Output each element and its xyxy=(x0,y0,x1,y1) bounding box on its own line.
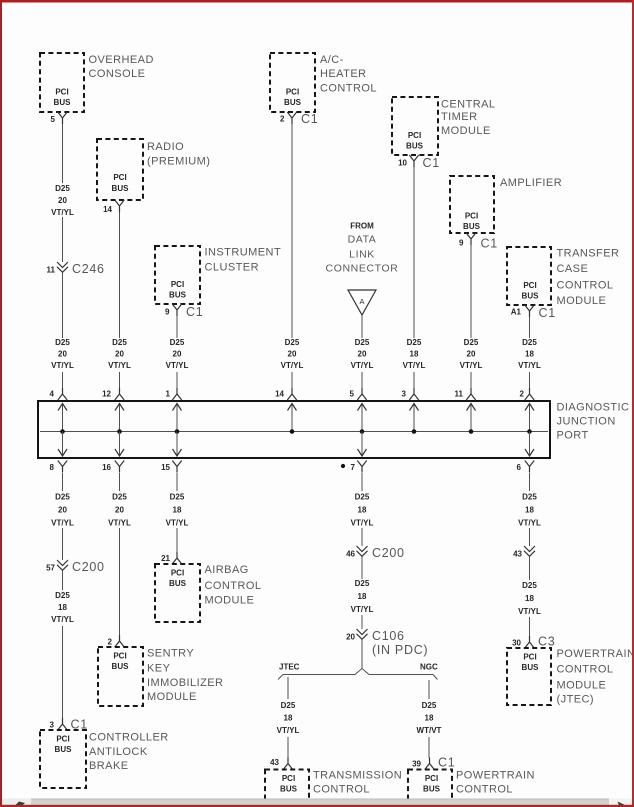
svg-text:18: 18 xyxy=(173,506,182,515)
svg-text:16: 16 xyxy=(102,463,111,472)
wire label D25 20 VT/YL xyxy=(108,338,131,370)
svg-text:TRANSFER: TRANSFER xyxy=(557,248,620,260)
svg-text:39: 39 xyxy=(412,760,421,769)
svg-text:20: 20 xyxy=(58,350,67,359)
wire segment xyxy=(529,372,531,390)
wire: port pin 7 down xyxy=(361,473,363,491)
svg-text:C1: C1 xyxy=(438,756,455,770)
module: TRANSFER CASE CONTROL MODULE (PCI BUS) xyxy=(507,247,619,307)
wire: to transmission control xyxy=(287,737,289,758)
svg-text:VT/YL: VT/YL xyxy=(51,519,74,528)
module: INSTRUMENT CLUSTER (PCI BUS) xyxy=(155,246,281,304)
svg-text:PCI: PCI xyxy=(113,652,126,661)
svg-text:BUS: BUS xyxy=(112,184,130,193)
wire label D25 20 VT/YL xyxy=(51,184,74,217)
svg-text:TRANSMISSION: TRANSMISSION xyxy=(313,770,402,782)
wire: C200 to controller antilock brake xyxy=(62,626,64,719)
svg-text:C200: C200 xyxy=(72,560,105,574)
svg-text:WT/VT: WT/VT xyxy=(417,726,442,735)
module: CENTRAL TIMER MODULE (PCI BUS) xyxy=(392,97,496,155)
port bottom connector pin 16 xyxy=(102,461,124,473)
svg-text:VT/YL: VT/YL xyxy=(51,361,74,370)
svg-text:VT/YL: VT/YL xyxy=(460,361,483,370)
svg-text:C106: C106 xyxy=(372,629,405,643)
pin 3 connector C1 of controller antilock brake xyxy=(50,718,88,732)
svg-text:10: 10 xyxy=(398,158,407,167)
svg-text:PCI: PCI xyxy=(113,173,126,182)
wire: A/C-heater control to junction port xyxy=(291,124,293,338)
wire: to airbag control module xyxy=(176,528,178,553)
port internal wire with down arrow xyxy=(115,432,124,457)
port internal wire with up arrow xyxy=(525,403,534,432)
svg-text:(PREMIUM): (PREMIUM) xyxy=(147,156,210,168)
wire: instrument cluster to junction port xyxy=(176,316,178,338)
port internal wire with up arrow xyxy=(467,403,476,432)
svg-text:18: 18 xyxy=(525,350,534,359)
pin 43 of transmission control xyxy=(270,758,293,770)
svg-text:14: 14 xyxy=(103,205,112,214)
wire label D25 20 VT/YL xyxy=(108,493,131,528)
port bottom connector pin 7 with junction dot marker xyxy=(341,461,367,473)
port connector pin 4 xyxy=(50,388,68,400)
svg-text:AIRBAG: AIRBAG xyxy=(205,564,249,576)
svg-text:CONTROL: CONTROL xyxy=(313,784,370,796)
svg-text:A1: A1 xyxy=(511,307,522,316)
svg-text:20: 20 xyxy=(288,350,297,359)
svg-text:TIMER: TIMER xyxy=(441,111,477,123)
svg-text:CASE: CASE xyxy=(557,263,589,275)
svg-text:SENTRY: SENTRY xyxy=(147,647,194,659)
svg-text:18: 18 xyxy=(410,350,419,359)
svg-text:C3: C3 xyxy=(538,635,555,649)
wire label D25 18 VT/YL xyxy=(51,591,74,624)
svg-text:18: 18 xyxy=(525,506,534,515)
svg-text:PCI: PCI xyxy=(286,88,299,97)
wire label D25 18 WT/VT xyxy=(417,701,442,735)
svg-text:(IN PDC): (IN PDC) xyxy=(372,643,428,657)
module: POWERTRAIN CONTROL MODULE JTEC (PCI BUS) xyxy=(507,648,634,706)
svg-text:VT/YL: VT/YL xyxy=(277,726,300,735)
svg-text:A/C-: A/C- xyxy=(320,54,344,66)
svg-text:CONTROL: CONTROL xyxy=(205,580,262,592)
wire: C106 to harness split xyxy=(361,640,363,670)
wire segment xyxy=(62,571,64,591)
svg-text:20: 20 xyxy=(467,350,476,359)
svg-text:VT/YL: VT/YL xyxy=(108,361,131,370)
pin 2 connector C1 of A/C-heater control xyxy=(280,112,318,126)
pin A1 connector C1 of transfer case control module xyxy=(511,305,556,320)
svg-text:POWERTRAIN: POWERTRAIN xyxy=(456,770,535,782)
svg-text:AMPLIFIER: AMPLIFIER xyxy=(500,177,562,189)
svg-text:C1: C1 xyxy=(539,306,556,320)
label: FROM DATA LINK CONNECTOR xyxy=(326,222,399,275)
svg-text:D25: D25 xyxy=(112,493,127,502)
wire: port pin 6 down xyxy=(529,473,531,491)
svg-text:ANTILOCK: ANTILOCK xyxy=(89,746,148,758)
in-line connector C200 pin 46 xyxy=(346,546,405,560)
wire label D25 20 VT/YL xyxy=(51,338,74,370)
wire label D25 18 VT/YL xyxy=(518,338,541,370)
wire: transfer case control module to junction port xyxy=(529,317,531,338)
pin 39 connector C1 of powertrain control xyxy=(412,756,455,770)
module: POWERTRAIN CONTROL (PCI BUS) xyxy=(408,770,535,804)
svg-text:BUS: BUS xyxy=(463,222,481,231)
junction dot xyxy=(360,429,365,434)
svg-text:IMMOBILIZER: IMMOBILIZER xyxy=(147,677,223,689)
svg-text:4: 4 xyxy=(50,390,55,399)
svg-text:46: 46 xyxy=(346,550,355,559)
svg-text:MODULE: MODULE xyxy=(557,295,607,307)
svg-text:18: 18 xyxy=(358,506,367,515)
wire: to sentry key immobilizer module xyxy=(119,528,121,636)
svg-text:D25: D25 xyxy=(112,338,127,347)
svg-text:9: 9 xyxy=(165,308,170,317)
svg-text:12: 12 xyxy=(102,390,111,399)
svg-text:5: 5 xyxy=(350,390,355,399)
svg-text:D25: D25 xyxy=(355,338,370,347)
svg-text:C200: C200 xyxy=(372,546,405,560)
wire label D25 18 VT/YL xyxy=(277,701,300,735)
svg-text:VT/YL: VT/YL xyxy=(518,519,541,528)
bus line inside junction port xyxy=(40,431,548,433)
module: OVERHEAD CONSOLE (PCI BUS) xyxy=(40,53,154,112)
pin 9 connector C1 of instrument cluster xyxy=(165,304,203,319)
module: A/C-HEATER CONTROL (PCI BUS) xyxy=(270,53,377,112)
svg-text:6: 6 xyxy=(517,463,522,472)
svg-text:18: 18 xyxy=(58,603,67,612)
svg-text:VT/YL: VT/YL xyxy=(403,361,426,370)
svg-text:CONTROLLER: CONTROLLER xyxy=(89,732,169,744)
wire label D25 20 VT/YL xyxy=(351,338,374,370)
svg-text:11: 11 xyxy=(47,266,56,275)
svg-text:VT/YL: VT/YL xyxy=(166,361,189,370)
svg-text:D25: D25 xyxy=(170,493,185,502)
port internal wire with down arrow xyxy=(525,432,534,457)
in-line connector C200 pin 57 xyxy=(46,560,105,574)
svg-text:PCI: PCI xyxy=(425,774,438,783)
port connector pin 11 xyxy=(455,388,476,400)
svg-text:BUS: BUS xyxy=(423,785,441,794)
svg-text:BUS: BUS xyxy=(55,745,73,754)
svg-text:CONTROL: CONTROL xyxy=(456,784,513,796)
svg-text:D25: D25 xyxy=(522,493,537,502)
svg-text:BUS: BUS xyxy=(522,292,540,301)
pin 9 connector C1 of amplifier xyxy=(459,233,498,251)
wire segment xyxy=(470,372,472,390)
port bottom connector pin 8 xyxy=(50,461,68,473)
svg-text:D25: D25 xyxy=(55,591,70,600)
svg-text:VT/YL: VT/YL xyxy=(518,361,541,370)
wire label D25 18 VT/YL xyxy=(351,493,374,528)
svg-text:CONTROL: CONTROL xyxy=(557,664,614,676)
svg-text:JTEC: JTEC xyxy=(279,663,300,672)
svg-text:PCI: PCI xyxy=(523,281,536,290)
svg-text:OVERHEAD: OVERHEAD xyxy=(89,54,154,66)
port internal wire with down arrow xyxy=(358,432,367,457)
svg-text:PCI: PCI xyxy=(171,569,184,578)
port connector pin 1 xyxy=(166,388,182,400)
svg-text:D25: D25 xyxy=(55,184,70,193)
svg-text:VT/YL: VT/YL xyxy=(281,361,304,370)
svg-text:(JTEC): (JTEC) xyxy=(557,694,595,706)
svg-text:11: 11 xyxy=(455,390,464,399)
wire: C246 to junction port xyxy=(62,273,64,339)
wire: data link connector to junction port xyxy=(361,315,363,338)
svg-text:20: 20 xyxy=(173,350,182,359)
svg-text:30: 30 xyxy=(512,639,521,648)
svg-text:20: 20 xyxy=(346,633,355,642)
svg-text:BUS: BUS xyxy=(54,98,72,107)
wire segment xyxy=(62,217,64,262)
wire segment xyxy=(119,372,121,390)
wire segment xyxy=(361,615,363,629)
wire label D25 18 VT/YL xyxy=(351,579,374,614)
svg-text:POWERTRAIN: POWERTRAIN xyxy=(557,648,634,660)
svg-text:C1: C1 xyxy=(481,237,498,251)
svg-text:PCI: PCI xyxy=(171,280,184,289)
wire: port pin 16 down xyxy=(119,473,121,491)
junction dot xyxy=(175,429,180,434)
junction dot xyxy=(469,429,474,434)
wire segment xyxy=(529,528,531,546)
svg-text:D25: D25 xyxy=(407,338,422,347)
svg-text:CONNECTOR: CONNECTOR xyxy=(326,263,399,275)
svg-text:43: 43 xyxy=(270,758,279,767)
pin 14 of radio xyxy=(103,200,124,214)
svg-text:CONTROL: CONTROL xyxy=(320,82,377,94)
svg-text:PCI: PCI xyxy=(523,653,536,662)
svg-text:D25: D25 xyxy=(355,493,370,502)
page frame and scrollbar chrome (decorative) xyxy=(0,0,634,3)
port connector pin 12 xyxy=(102,388,124,400)
wire label D25 20 VT/YL xyxy=(460,338,483,370)
module: AMPLIFIER (PCI BUS) xyxy=(450,176,562,233)
svg-text:INSTRUMENT: INSTRUMENT xyxy=(205,246,282,258)
svg-text:3: 3 xyxy=(50,721,55,730)
svg-text:14: 14 xyxy=(275,390,284,399)
svg-text:20: 20 xyxy=(58,506,67,515)
wire: amplifier to junction port xyxy=(470,245,472,338)
svg-text:15: 15 xyxy=(161,463,170,472)
wire label D25 18 VT/YL xyxy=(403,338,426,370)
junction dot xyxy=(290,429,295,434)
svg-text:7: 7 xyxy=(351,463,356,472)
svg-text:D25: D25 xyxy=(285,338,300,347)
wire label D25 20 VT/YL xyxy=(281,338,304,370)
svg-text:20: 20 xyxy=(115,506,124,515)
svg-text:2: 2 xyxy=(280,115,285,124)
svg-text:PCI: PCI xyxy=(408,131,421,140)
svg-text:FROM: FROM xyxy=(350,222,374,231)
svg-text:CLUSTER: CLUSTER xyxy=(205,261,260,273)
svg-text:C1: C1 xyxy=(301,112,318,126)
svg-text:VT/YL: VT/YL xyxy=(51,208,74,217)
svg-text:CONTROL: CONTROL xyxy=(557,280,614,292)
port connector pin 3 xyxy=(402,388,419,400)
wire label D25 20 VT/YL xyxy=(166,338,189,370)
in-line connector C106 pin 20 (in PDC) xyxy=(346,629,428,657)
wire: to powertrain control xyxy=(428,737,430,758)
svg-text:RADIO: RADIO xyxy=(147,141,184,153)
svg-text:MODULE: MODULE xyxy=(205,594,255,606)
port internal wire with down arrow xyxy=(173,432,182,457)
svg-text:18: 18 xyxy=(284,714,293,723)
port connector pin 5 xyxy=(350,388,367,400)
svg-text:CENTRAL: CENTRAL xyxy=(441,98,496,110)
in-line connector C246 pin 11 xyxy=(47,262,105,276)
pin 30 connector C3 of powertrain control module xyxy=(512,635,555,649)
wire segment xyxy=(176,372,178,390)
svg-text:20: 20 xyxy=(358,350,367,359)
svg-text:D25: D25 xyxy=(522,581,537,590)
junction dot xyxy=(60,429,65,434)
svg-text:MODULE: MODULE xyxy=(441,125,491,137)
svg-text:PORT: PORT xyxy=(557,430,589,442)
svg-text:8: 8 xyxy=(50,463,55,472)
wire label D25 18 VT/YL xyxy=(518,581,541,616)
svg-text:D25: D25 xyxy=(464,338,479,347)
svg-text:A: A xyxy=(359,297,364,306)
off-page triangle A (data link connector) xyxy=(348,290,376,315)
svg-text:MODULE: MODULE xyxy=(147,691,197,703)
svg-text:D25: D25 xyxy=(281,701,296,710)
module: TRANSMISSION CONTROL (PCI BUS) xyxy=(265,770,402,804)
svg-text:3: 3 xyxy=(402,390,407,399)
wire segment xyxy=(361,528,363,546)
wire: port pin 8 down xyxy=(62,473,64,491)
svg-text:D25: D25 xyxy=(170,338,185,347)
svg-text:20: 20 xyxy=(58,196,67,205)
svg-text:21: 21 xyxy=(161,554,170,563)
wire segment xyxy=(361,557,363,580)
port connector pin 14 xyxy=(275,388,297,400)
svg-text:D25: D25 xyxy=(55,338,70,347)
junction dot xyxy=(117,429,122,434)
svg-text:JUNCTION: JUNCTION xyxy=(557,416,616,428)
in-line connector pin 43 xyxy=(513,546,535,559)
wire label D25 18 VT/YL xyxy=(518,493,541,528)
wire segment xyxy=(62,372,64,390)
svg-text:PCI: PCI xyxy=(55,88,68,97)
svg-text:VT/YL: VT/YL xyxy=(351,519,374,528)
svg-text:D25: D25 xyxy=(55,493,70,502)
svg-text:5: 5 xyxy=(51,115,56,124)
svg-text:VT/YL: VT/YL xyxy=(108,519,131,528)
svg-text:BRAKE: BRAKE xyxy=(89,760,129,772)
svg-text:CONSOLE: CONSOLE xyxy=(89,68,146,80)
wire: radio to junction port xyxy=(119,212,121,338)
svg-text:D25: D25 xyxy=(355,579,370,588)
wire: central timer module to junction port xyxy=(413,167,415,338)
harness split to JTEC and NGC branches xyxy=(278,669,438,680)
wire: to powertrain control module JTEC xyxy=(529,617,531,637)
module: AIRBAG CONTROL MODULE (PCI BUS) xyxy=(155,564,261,622)
port internal wire with up arrow xyxy=(115,403,124,432)
svg-text:BUS: BUS xyxy=(280,785,298,794)
svg-text:C1: C1 xyxy=(423,156,440,170)
svg-text:PCI: PCI xyxy=(56,735,69,744)
svg-text:2: 2 xyxy=(520,390,525,399)
svg-text:HEATER: HEATER xyxy=(320,68,367,80)
svg-text:MODULE: MODULE xyxy=(557,680,607,692)
svg-text:BUS: BUS xyxy=(169,291,187,300)
svg-text:LINK: LINK xyxy=(349,249,375,261)
svg-text:NGC: NGC xyxy=(420,663,438,672)
svg-text:VT/YL: VT/YL xyxy=(518,607,541,616)
wire: port pin 15 down xyxy=(176,473,178,491)
port bottom connector pin 6 xyxy=(517,461,535,473)
svg-text:20: 20 xyxy=(115,350,124,359)
svg-text:DIAGNOSTIC: DIAGNOSTIC xyxy=(557,401,630,413)
pin 21 of airbag control module xyxy=(161,552,182,564)
wire: JTEC branch down xyxy=(287,677,289,699)
port internal wire with up arrow xyxy=(288,403,297,432)
junction dot xyxy=(412,429,417,434)
module: RADIO PREMIUM (PCI BUS) xyxy=(97,139,210,200)
wire label D25 20 VT/YL xyxy=(51,493,74,528)
pin 10 connector C1 of central timer module xyxy=(398,155,440,170)
wire segment xyxy=(291,372,293,390)
wire segment xyxy=(413,372,415,390)
port internal wire with up arrow xyxy=(58,403,67,432)
port connector pin 2 xyxy=(520,388,535,400)
wire label D25 18 VT/YL xyxy=(166,493,189,528)
port bottom connector pin 15 xyxy=(161,461,182,473)
svg-text:BUS: BUS xyxy=(169,579,187,588)
port internal wire with up arrow xyxy=(358,403,367,432)
svg-text:VT/YL: VT/YL xyxy=(351,361,374,370)
svg-text:D25: D25 xyxy=(422,701,437,710)
svg-text:18: 18 xyxy=(358,592,367,601)
junction dot xyxy=(527,429,532,434)
pin 2 of sentry key immobilizer module xyxy=(108,635,125,647)
svg-text:2: 2 xyxy=(108,638,113,647)
svg-text:BUS: BUS xyxy=(406,141,424,150)
svg-text:43: 43 xyxy=(513,550,522,559)
svg-text:BUS: BUS xyxy=(284,98,302,107)
port internal wire with up arrow xyxy=(410,403,419,432)
port internal wire with up arrow xyxy=(173,403,182,432)
wire segment xyxy=(361,372,363,390)
svg-text:D25: D25 xyxy=(522,338,537,347)
wire: NGC branch down xyxy=(428,680,430,699)
svg-text:PCI: PCI xyxy=(465,212,478,221)
module: CONTROLLER ANTILOCK BRAKE (PCI BUS) xyxy=(40,730,169,788)
component: DIAGNOSTIC JUNCTION PORT box xyxy=(38,401,629,458)
svg-text:C1: C1 xyxy=(186,305,203,319)
svg-text:DATA: DATA xyxy=(348,234,377,246)
wire segment xyxy=(62,528,64,560)
svg-text:1: 1 xyxy=(166,390,171,399)
svg-text:VT/YL: VT/YL xyxy=(166,519,189,528)
svg-text:9: 9 xyxy=(459,239,464,248)
wire segment xyxy=(529,557,531,581)
pin 5 of overhead console xyxy=(51,112,68,124)
wire: overhead console to C246 xyxy=(62,124,64,183)
svg-text:57: 57 xyxy=(46,564,55,573)
svg-text:PCI: PCI xyxy=(282,774,295,783)
svg-text:VT/YL: VT/YL xyxy=(351,605,374,614)
svg-text:18: 18 xyxy=(425,714,434,723)
module: SENTRY KEY IMMOBILIZER MODULE (PCI BUS) xyxy=(98,647,223,706)
svg-text:18: 18 xyxy=(525,594,534,603)
port internal wire with down arrow xyxy=(58,432,67,457)
svg-text:VT/YL: VT/YL xyxy=(51,615,74,624)
svg-text:KEY: KEY xyxy=(147,663,171,675)
svg-text:BUS: BUS xyxy=(522,663,540,672)
svg-text:BUS: BUS xyxy=(112,662,130,671)
svg-text:C246: C246 xyxy=(72,262,105,276)
